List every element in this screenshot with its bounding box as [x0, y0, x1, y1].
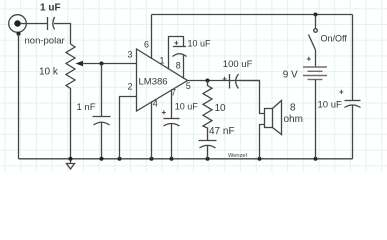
svg-text:10 uF: 10 uF	[318, 100, 342, 111]
capacitor C5 47nF	[199, 141, 217, 149]
svg-text:+: +	[174, 39, 179, 48]
wire pot bottom to ground bus	[70, 91, 72, 159]
svg-text:On/Off: On/Off	[321, 34, 348, 44]
wire pin 7 down	[171, 89, 173, 118]
wire rail right corner down	[352, 15, 354, 101]
wire C3 to pin 8	[183, 55, 185, 79]
wire wiper to pin 3	[82, 63, 137, 65]
speaker SP1	[265, 101, 282, 135]
wire pin 6 to V+ rail	[151, 15, 153, 60]
capacitor C6 100uF	[230, 74, 239, 89]
wire jack tip to C1	[20, 23, 48, 25]
battery B1 9V	[303, 67, 327, 80]
wire C5 to ground bus	[207, 146, 209, 159]
input jack J1	[9, 15, 27, 36]
capacitor C2 1nF	[93, 117, 111, 126]
svg-text:non-polar: non-polar	[25, 36, 65, 47]
wire C6 to speaker	[239, 81, 265, 114]
ground bus wire	[19, 158, 353, 160]
capacitor C4 10uF bypass	[164, 119, 180, 127]
svg-text:10 k: 10 k	[39, 67, 59, 78]
svg-text:8: 8	[176, 60, 181, 70]
node V+ battery junction	[314, 13, 318, 17]
wire rail to switch	[315, 15, 317, 29]
svg-text:Wenzel: Wenzel	[228, 153, 247, 159]
svg-text:5: 5	[186, 81, 191, 91]
svg-text:4: 4	[153, 99, 158, 109]
svg-text:+: +	[222, 75, 227, 84]
resistor R2 10 ohm	[203, 81, 212, 141]
svg-text:1 nF: 1 nF	[77, 102, 96, 113]
svg-text:7: 7	[171, 87, 176, 97]
svg-text:8: 8	[290, 103, 296, 114]
node output junction	[206, 79, 210, 83]
V+ rail wire	[152, 14, 353, 16]
wire battery to ground bus	[315, 80, 317, 159]
svg-text:+: +	[162, 108, 167, 117]
svg-text:10 uF: 10 uF	[188, 38, 212, 48]
wire pin 5 output	[188, 80, 260, 82]
wire C1 to potentiometer top	[54, 24, 71, 45]
svg-text:ohm: ohm	[284, 114, 303, 125]
potentiometer wiper arrow	[76, 61, 84, 66]
svg-text:10: 10	[215, 103, 227, 114]
wire pin 1 up and over	[169, 37, 184, 70]
capacitor C7 10uF supply	[345, 101, 361, 108]
junction dots on ground bus	[69, 157, 73, 161]
wire C2 to ground bus	[101, 122, 103, 159]
svg-text:1: 1	[160, 56, 165, 66]
svg-text:2: 2	[128, 82, 133, 92]
node junction wiper/C2	[100, 62, 104, 66]
switch S1 On/Off	[309, 29, 318, 50]
wire node to C2	[101, 64, 103, 117]
wire pin 2	[120, 97, 137, 159]
svg-text:3: 3	[128, 50, 133, 60]
svg-text:+: +	[339, 88, 344, 97]
svg-text:+: +	[307, 55, 312, 64]
wire jack sleeve down	[18, 34, 20, 159]
svg-text:10 uF: 10 uF	[175, 102, 199, 112]
svg-text:9 V: 9 V	[283, 70, 298, 81]
capacitor C3 10uF pins1-8	[173, 47, 187, 57]
svg-text:LM386: LM386	[139, 76, 168, 87]
potentiometer R1 10k body	[66, 44, 75, 91]
svg-text:6: 6	[144, 40, 149, 50]
ground symbol	[67, 159, 75, 169]
svg-text:100 uF: 100 uF	[223, 59, 253, 70]
wire switch to battery	[315, 50, 317, 67]
wire C7 to ground bus	[352, 105, 354, 159]
svg-text:47 nF: 47 nF	[209, 126, 235, 137]
wire C4 to ground bus	[171, 124, 173, 159]
capacitor C1 1uF non-polar	[48, 17, 55, 30]
op-amp U1 LM386	[137, 49, 188, 111]
svg-text:1 uF: 1 uF	[40, 3, 61, 14]
wire pin 4 to ground bus	[151, 101, 153, 158]
wire speaker to ground bus	[260, 125, 265, 159]
